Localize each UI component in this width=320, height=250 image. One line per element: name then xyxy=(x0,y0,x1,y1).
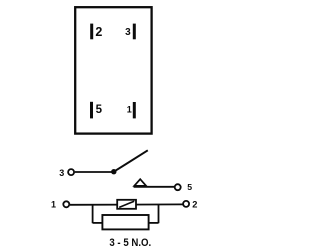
svg-text:3: 3 xyxy=(125,27,131,38)
svg-text:2: 2 xyxy=(95,25,102,39)
svg-text:5: 5 xyxy=(96,104,103,116)
svg-text:2: 2 xyxy=(192,199,197,209)
svg-text:3 - 5 N.O.: 3 - 5 N.O. xyxy=(109,237,151,249)
svg-text:3: 3 xyxy=(59,168,64,178)
svg-text:1: 1 xyxy=(51,200,56,210)
svg-text:1: 1 xyxy=(127,105,132,115)
svg-text:5: 5 xyxy=(187,182,192,192)
